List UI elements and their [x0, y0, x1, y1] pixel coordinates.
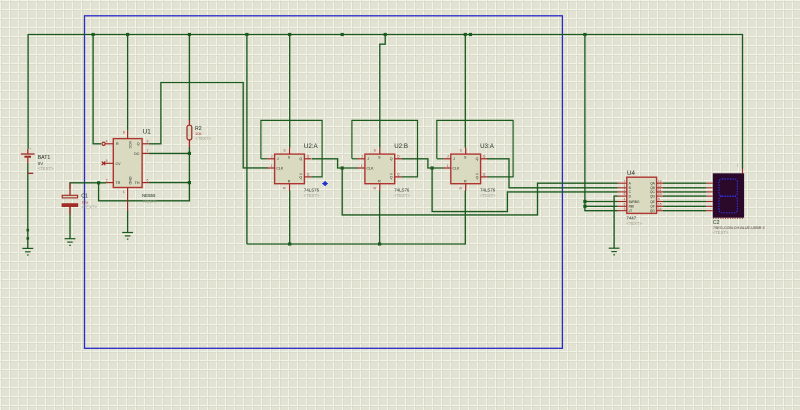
svg-text:QD: QD: [650, 194, 655, 198]
resistor R2: [187, 120, 192, 147]
svg-text:6: 6: [147, 178, 149, 182]
svg-text:<TEXT>: <TEXT>: [304, 193, 320, 198]
svg-text:CLK: CLK: [452, 166, 460, 170]
svg-text:J: J: [453, 157, 455, 161]
wire: U2:B R pin to bus: [379, 191, 381, 245]
flip-flop U3:A: [443, 148, 487, 191]
junction: U2:A R/bus: [288, 242, 291, 245]
svg-text:14: 14: [658, 207, 662, 211]
wire: U1 output loop to U2:A CLK: [149, 83, 268, 168]
junction: U4 RBI: [583, 205, 586, 208]
svg-text:Q: Q: [299, 157, 302, 161]
svg-text:NE555: NE555: [142, 193, 156, 198]
wire: Q2 to U4 input B: [432, 168, 617, 212]
svg-text:U2:A: U2:A: [304, 143, 319, 150]
wire: U2:A Q to U2:B CLK: [312, 159, 358, 168]
wire: U4 QD to display: [663, 195, 706, 197]
wire: R2 bottom lead net: [188, 147, 190, 153]
svg-text:8: 8: [123, 131, 125, 135]
svg-text:DC: DC: [134, 152, 140, 156]
wire: Q1 to U4 input A: [342, 168, 617, 215]
svg-text:3: 3: [147, 140, 149, 144]
svg-text:R: R: [378, 180, 381, 184]
7-segment display: [706, 163, 744, 218]
junction: rail/U2:A S: [288, 33, 291, 36]
svg-text:74LS76: 74LS76: [394, 188, 410, 193]
feedback loop U2:B: [352, 120, 418, 176]
svg-text:2: 2: [106, 178, 108, 182]
junction: TR node: [97, 181, 100, 184]
svg-text:R: R: [464, 180, 467, 184]
svg-text:1: 1: [447, 164, 449, 168]
wire: U1 DC pin to R2 bottom: [149, 152, 190, 154]
svg-text:R: R: [288, 180, 291, 184]
svg-text:9: 9: [658, 198, 660, 202]
wire: U4 QB to display: [663, 187, 706, 189]
svg-text:GND: GND: [128, 177, 132, 185]
wire: U4 QG to display: [663, 210, 706, 212]
junction: rail/U1 vcc: [126, 33, 129, 36]
svg-text:QE: QE: [650, 200, 655, 204]
wire: U4 LT pin tie: [585, 201, 618, 203]
svg-text:Q: Q: [476, 175, 479, 179]
svg-text:QF: QF: [650, 205, 654, 209]
svg-text:C1: C1: [81, 193, 88, 199]
junction: rail/R2: [188, 33, 191, 36]
junction: rail/U2:B S: [384, 33, 387, 36]
svg-text:6: 6: [624, 192, 626, 196]
svg-text:Q: Q: [307, 173, 310, 177]
wire: rail to U3:A S pin: [464, 35, 466, 148]
wire: U2:A R pin to bus: [289, 191, 291, 245]
svg-text:<TEXT>: <TEXT>: [394, 193, 410, 198]
wire: U1 TR pin to C1: [70, 183, 106, 189]
junction: Q2 node: [431, 166, 434, 169]
svg-text:BI/RBO: BI/RBO: [629, 200, 640, 204]
svg-text:QG: QG: [650, 209, 655, 213]
wire: U4 RBI pin tie: [585, 205, 618, 207]
feedback loop U3:A: [437, 120, 513, 176]
svg-text:R: R: [116, 142, 119, 146]
svg-text:Q: Q: [483, 173, 486, 177]
svg-text:TH: TH: [135, 181, 140, 185]
svg-text:74LS76: 74LS76: [480, 188, 496, 193]
svg-text:LT: LT: [629, 209, 633, 213]
wire: TR to TH loop: [99, 183, 190, 201]
wire: U4 QF to display: [663, 205, 706, 207]
svg-text:4: 4: [624, 198, 626, 202]
svg-text:TR: TR: [116, 181, 121, 185]
blue region border: [85, 16, 563, 349]
wire: U1 TH pin: [149, 182, 190, 184]
svg-text:1: 1: [271, 164, 273, 168]
wire: U4 QA to display: [663, 182, 706, 184]
svg-text:1: 1: [737, 163, 739, 167]
junction: rail/U1 reset: [92, 33, 95, 36]
svg-text:<TEXT>: <TEXT>: [81, 205, 97, 210]
wire: rail drop to reset bus: [246, 35, 248, 245]
blue marker: [322, 181, 328, 186]
svg-text:U4: U4: [627, 170, 635, 177]
junction: rail/U3:A S: [464, 33, 467, 36]
junction: TH node: [188, 181, 191, 184]
svg-text:Q: Q: [476, 157, 479, 161]
svg-text:5: 5: [106, 159, 108, 163]
svg-text:Q: Q: [307, 155, 310, 159]
junction: rail dot 2: [469, 33, 472, 36]
battery BAT1: [21, 147, 35, 174]
flip-flop U2:B: [358, 148, 402, 191]
svg-text:U2:B: U2:B: [394, 143, 408, 150]
svg-text:CV: CV: [116, 162, 122, 166]
svg-text:RBI: RBI: [629, 205, 634, 209]
wire: battery negative to ground: [27, 163, 29, 248]
svg-text:4: 4: [106, 140, 108, 144]
svg-text:Q: Q: [390, 175, 393, 179]
flip-flop U2:A: [267, 148, 311, 191]
svg-text:U1: U1: [143, 129, 151, 136]
wire: U4 QE to display: [663, 201, 706, 203]
wire: C1 to ground: [69, 206, 71, 239]
ground: battery: [22, 248, 33, 255]
svg-text:<TEXT>: <TEXT>: [480, 193, 496, 198]
junction: U4 LT: [583, 200, 586, 203]
ground: U1: [122, 233, 133, 240]
wire: rail to U2:A S pin: [289, 35, 291, 148]
svg-text:13: 13: [658, 179, 662, 183]
svg-text:Q: Q: [397, 173, 400, 177]
timer U1 NE555: [102, 130, 149, 211]
svg-text:1: 1: [123, 190, 125, 194]
svg-text:CLK: CLK: [367, 166, 375, 170]
wire: rail to U1 reset pin: [93, 35, 101, 144]
svg-text:J: J: [447, 155, 449, 159]
svg-text:10: 10: [658, 192, 662, 196]
junction: Q1 node: [341, 166, 344, 169]
junction: U2:B R/bus: [378, 242, 381, 245]
svg-text:3: 3: [624, 207, 626, 211]
ground: U4: [609, 248, 620, 255]
svg-text:U3:A: U3:A: [480, 143, 495, 150]
svg-text:J: J: [361, 155, 363, 159]
junction: rail dot: [341, 33, 344, 36]
junction: rail/bus drop: [245, 33, 248, 36]
capacitor C1: [62, 183, 77, 215]
wire: U2:B Q to U3:A CLK: [402, 159, 444, 168]
wire: rail jog to U2:B S pin: [380, 35, 385, 148]
svg-text:1: 1: [361, 164, 363, 168]
ground: C1: [65, 239, 76, 246]
svg-text:5: 5: [624, 202, 626, 206]
wire: flip-flop reset bus: [247, 191, 465, 245]
svg-text:7447: 7447: [626, 216, 636, 221]
svg-text:VCC: VCC: [128, 141, 132, 149]
wire: U3:A Q to U4 input C: [487, 159, 618, 188]
decoder U4 7447: [618, 177, 664, 213]
junction: battery wire dot A: [27, 229, 30, 232]
svg-text:<TEXT>: <TEXT>: [626, 221, 642, 226]
svg-text:<TEXT>: <TEXT>: [38, 166, 54, 171]
svg-text:Q: Q: [483, 155, 486, 159]
junction: battery wire dot B: [27, 237, 30, 240]
svg-text:Q: Q: [299, 175, 302, 179]
svg-text:CLK: CLK: [276, 166, 284, 170]
svg-text:74LS76: 74LS76: [304, 188, 320, 193]
svg-text:7: 7: [147, 149, 149, 153]
wire: rail drop to U4 control pins: [585, 35, 618, 211]
svg-text:Q: Q: [390, 157, 393, 161]
svg-text:Q: Q: [397, 155, 400, 159]
wire: VCC top rail: [28, 35, 742, 169]
wire: rail to R2 top: [188, 35, 190, 121]
svg-text:Q: Q: [137, 142, 140, 146]
junction: rail/U4 drop: [583, 33, 586, 36]
svg-text:J: J: [277, 157, 279, 161]
wire: rail to U1 VCC pin: [127, 35, 129, 131]
svg-text:J: J: [367, 157, 369, 161]
svg-text:7: 7: [624, 179, 626, 183]
svg-text:<TEXT>: <TEXT>: [195, 136, 211, 141]
wire: U4 QC to display: [663, 191, 706, 193]
svg-text:J: J: [271, 155, 273, 159]
wire: R2 node down to TH pin: [188, 153, 190, 182]
svg-text:<TEXT>: <TEXT>: [713, 230, 729, 235]
junction: R2/DC: [188, 152, 191, 155]
svg-text:15: 15: [658, 202, 662, 206]
feedback loop U2:A: [261, 120, 322, 176]
wire: U1 GND pin to ground: [127, 211, 129, 233]
wire: U4 input D to ground: [614, 196, 617, 248]
svg-text:<TEXT>: <TEXT>: [142, 199, 158, 204]
